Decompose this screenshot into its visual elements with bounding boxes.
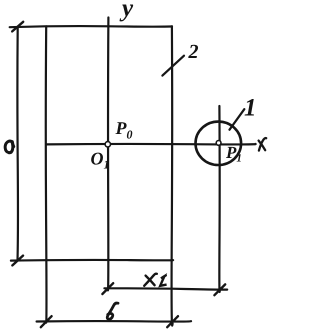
- label в (cursive hand-drawn): [107, 303, 118, 319]
- label 2: [188, 45, 198, 58]
- wire rectangle bottom edge: [11, 259, 173, 262]
- arrow a top: [12, 22, 23, 32]
- label y: [120, 5, 134, 22]
- label x (hand-drawn): [259, 138, 267, 151]
- wire circle vertical centerline: [218, 106, 221, 292]
- wire rectangle top edge: [10, 26, 172, 27]
- label O1: [91, 153, 108, 169]
- label 1: [245, 99, 254, 116]
- wire dimension line a: [16, 27, 19, 261]
- wire dimension line в: [37, 320, 191, 323]
- node P1 marker: [216, 141, 221, 146]
- dimension arrows (45-degree slashes): [12, 22, 225, 327]
- arrow x1 right: [214, 284, 225, 295]
- arrow в left: [41, 316, 52, 327]
- arrow a bottom: [12, 256, 23, 266]
- wire rectangle left edge: [45, 26, 48, 322]
- wire y-axis: [107, 18, 110, 291]
- wire rectangle right edge: [172, 26, 173, 325]
- leader line to label 2: [162, 56, 184, 76]
- wire x-axis: [46, 143, 255, 146]
- arrow в right: [167, 316, 178, 327]
- label P1: [226, 147, 241, 162]
- node P0 marker: [105, 142, 110, 147]
- label P0: [115, 122, 132, 138]
- wire dimension line x1: [104, 288, 227, 289]
- label x1 (hand-drawn): [144, 274, 166, 286]
- leader line to label 1: [230, 109, 245, 130]
- circle 1 body: [196, 122, 242, 165]
- label a (rotated, hand-drawn): [5, 141, 14, 153]
- arrow x1 left: [102, 283, 113, 294]
